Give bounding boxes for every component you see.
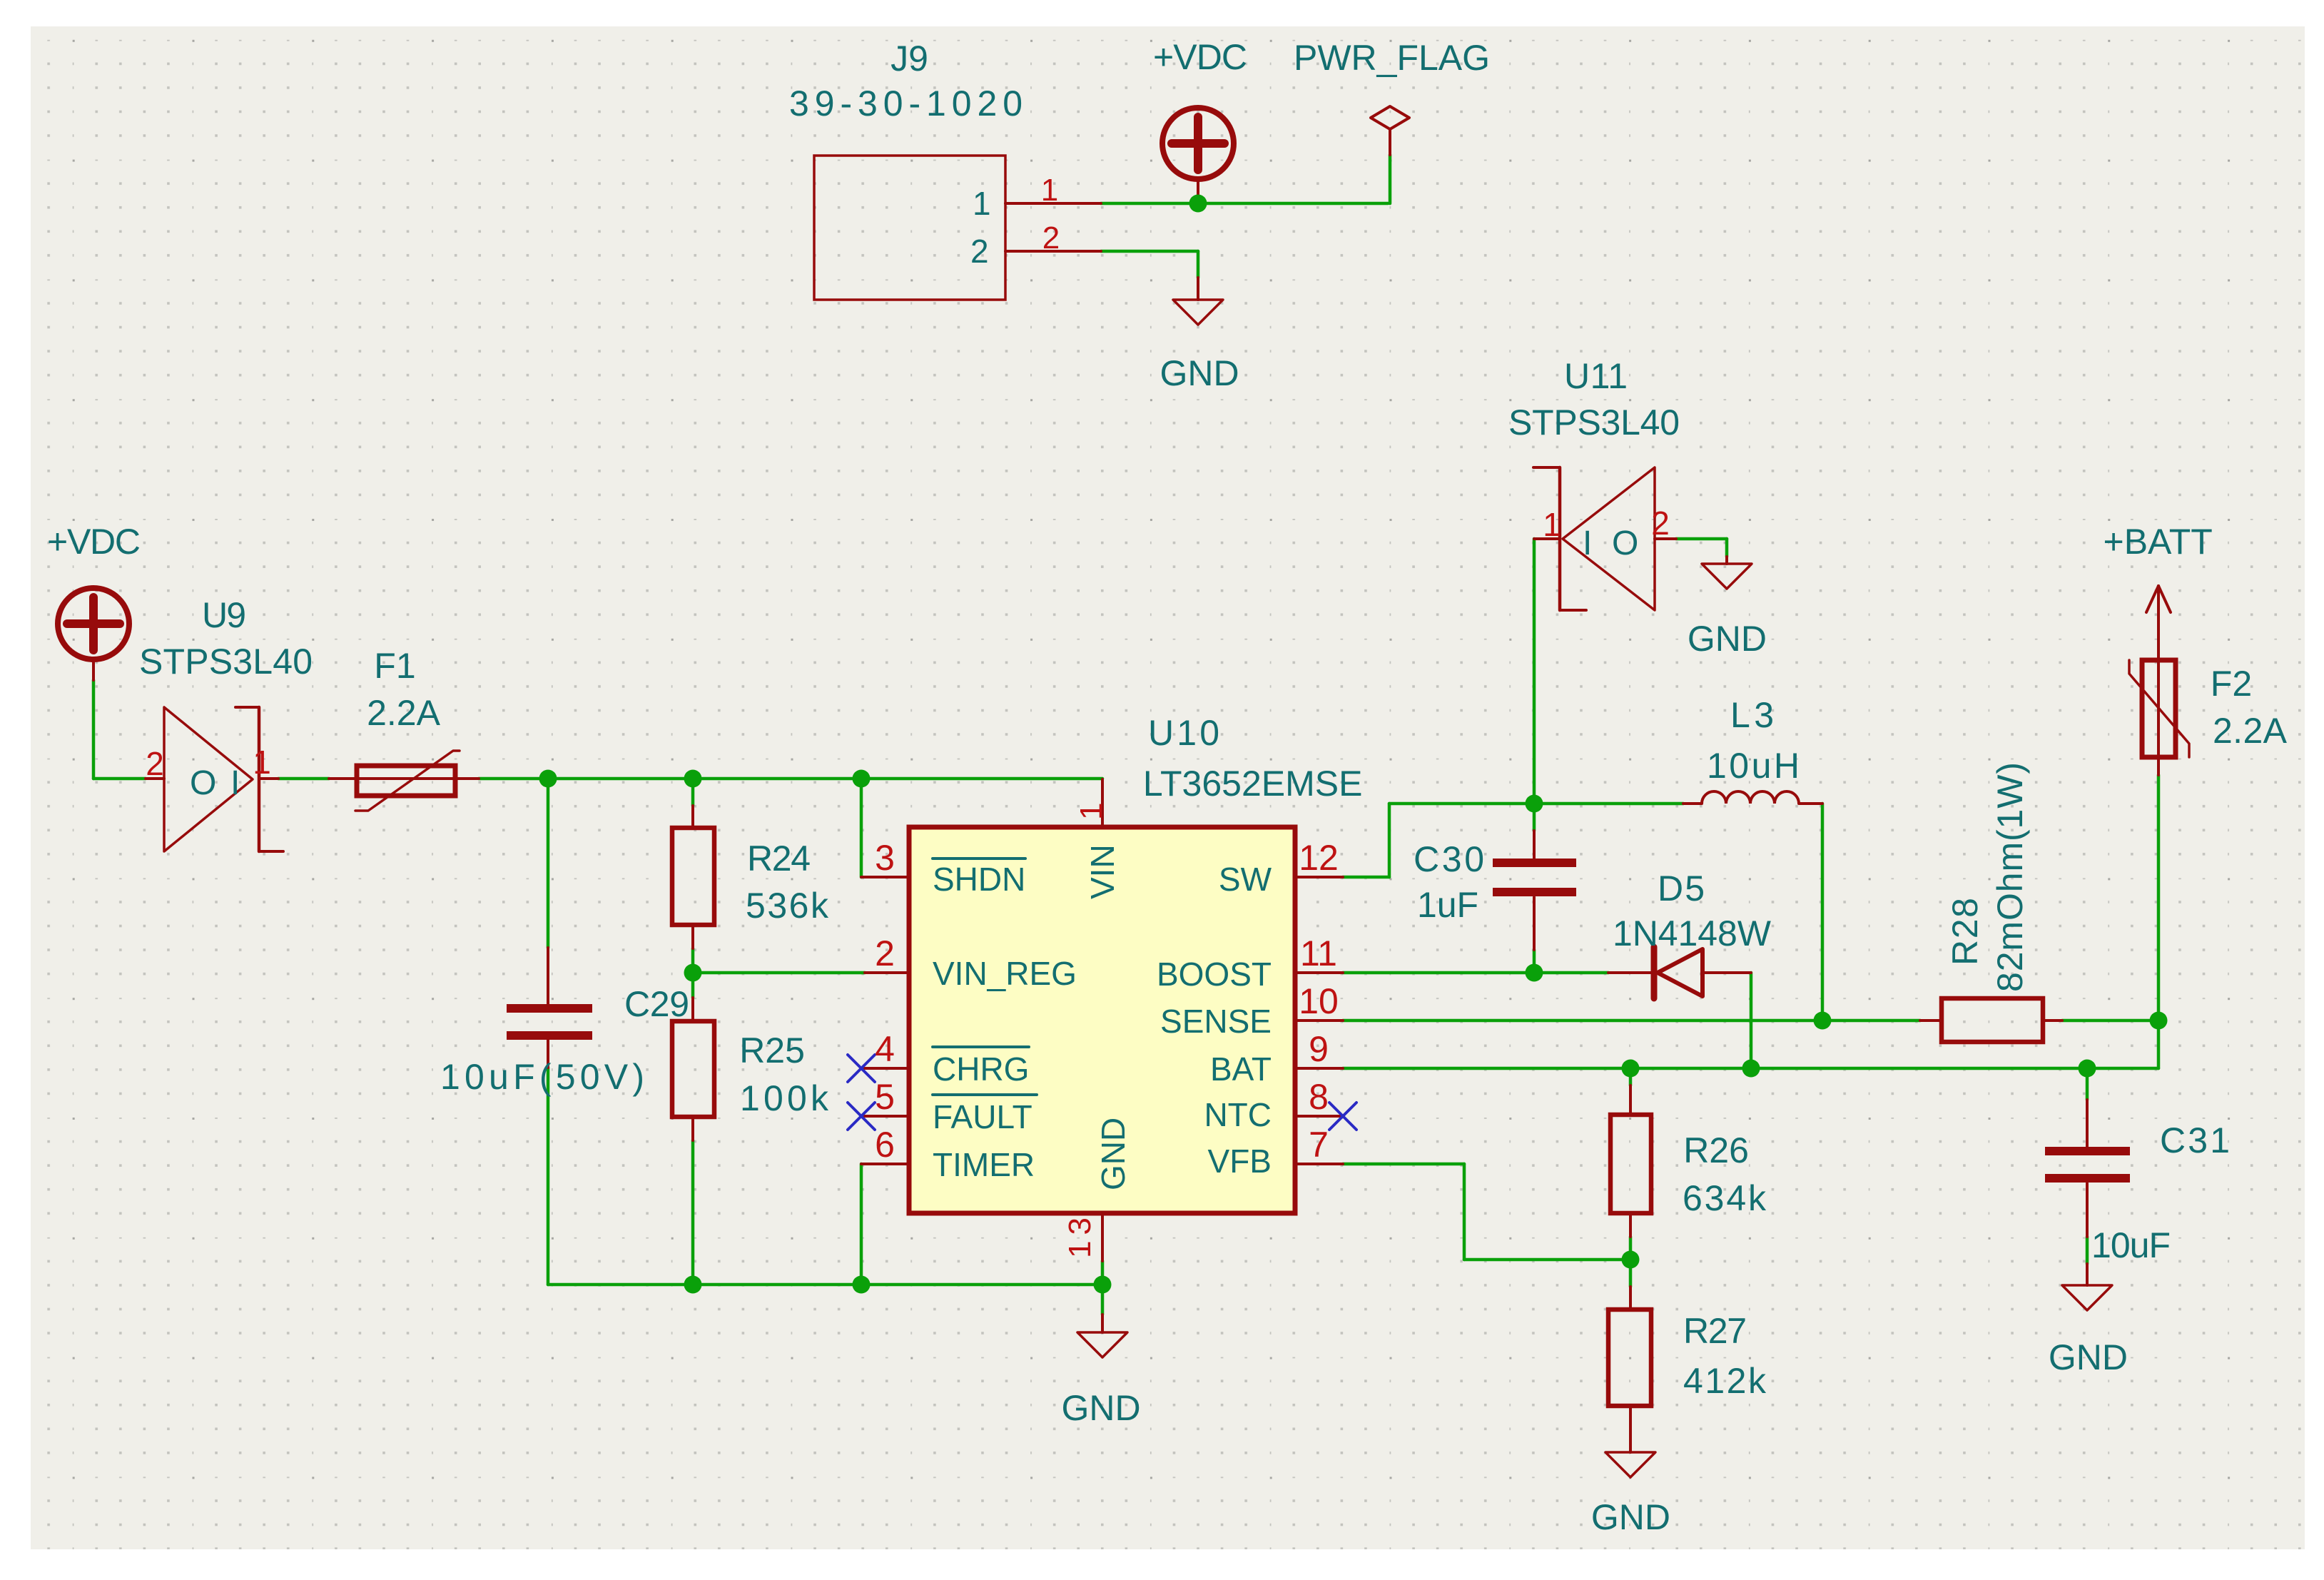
svg-text:GND: GND — [1591, 1497, 1670, 1537]
svg-text:PWR_FLAG: PWR_FLAG — [1294, 38, 1490, 78]
svg-text:O: O — [1612, 525, 1638, 562]
svg-text:R27: R27 — [1683, 1311, 1747, 1351]
svg-text:82mOhm(1W): 82mOhm(1W) — [1990, 762, 2030, 992]
svg-text:5: 5 — [875, 1077, 895, 1117]
svg-text:2: 2 — [146, 745, 164, 782]
svg-text:1uF: 1uF — [1417, 885, 1478, 925]
svg-text:GND: GND — [2049, 1337, 2128, 1377]
svg-text:CHRG: CHRG — [933, 1050, 1029, 1088]
svg-text:NTC: NTC — [1204, 1096, 1272, 1133]
svg-text:8: 8 — [1309, 1077, 1329, 1117]
svg-text:1: 1 — [1074, 803, 1109, 820]
svg-text:SW: SW — [1219, 861, 1272, 898]
svg-text:TIMER: TIMER — [933, 1146, 1035, 1183]
svg-text:1N4148W: 1N4148W — [1613, 913, 1772, 953]
svg-text:1: 1 — [253, 744, 271, 781]
svg-text:VFB: VFB — [1208, 1143, 1272, 1180]
svg-text:BAT: BAT — [1210, 1050, 1272, 1088]
svg-text:LT3652EMSE: LT3652EMSE — [1143, 764, 1363, 804]
svg-text:GND: GND — [1160, 353, 1239, 393]
svg-text:VIN: VIN — [1084, 844, 1121, 899]
svg-text:GND: GND — [1688, 619, 1767, 659]
svg-text:R25: R25 — [739, 1030, 805, 1070]
svg-text:2: 2 — [970, 233, 989, 270]
svg-text:R26: R26 — [1683, 1130, 1749, 1170]
svg-text:STPS3L40: STPS3L40 — [139, 642, 313, 682]
svg-text:10: 10 — [1299, 981, 1339, 1021]
svg-text:U10: U10 — [1148, 713, 1219, 753]
svg-text:GND: GND — [1062, 1388, 1141, 1428]
svg-text:+VDC: +VDC — [47, 522, 141, 562]
svg-text:J9: J9 — [890, 39, 928, 79]
svg-text:1: 1 — [973, 185, 991, 222]
svg-text:I: I — [1583, 525, 1592, 562]
svg-text:1: 1 — [1543, 506, 1561, 543]
svg-text:2.2A: 2.2A — [367, 693, 441, 733]
svg-text:1: 1 — [1041, 173, 1058, 208]
svg-text:7: 7 — [1309, 1125, 1329, 1165]
svg-text:6: 6 — [875, 1125, 895, 1165]
svg-text:F2: F2 — [2211, 664, 2252, 704]
svg-text:SENSE: SENSE — [1160, 1003, 1272, 1040]
svg-text:2: 2 — [1042, 221, 1060, 255]
svg-text:FAULT: FAULT — [933, 1098, 1032, 1135]
svg-text:F1: F1 — [374, 646, 415, 686]
svg-text:U11: U11 — [1564, 356, 1628, 396]
svg-text:O: O — [190, 764, 216, 802]
svg-text:C31: C31 — [2160, 1120, 2230, 1160]
svg-text:R24: R24 — [747, 839, 811, 878]
svg-text:2: 2 — [875, 933, 895, 973]
svg-text:10uF(50V): 10uF(50V) — [440, 1057, 644, 1097]
svg-text:+BATT: +BATT — [2104, 522, 2213, 562]
svg-text:BOOST: BOOST — [1157, 956, 1272, 993]
svg-text:GND: GND — [1095, 1118, 1132, 1190]
svg-text:2: 2 — [1651, 505, 1670, 542]
svg-text:VIN_REG: VIN_REG — [933, 955, 1077, 992]
svg-text:R28: R28 — [1945, 898, 1985, 966]
svg-text:U9: U9 — [202, 595, 246, 635]
svg-text:10uF: 10uF — [2091, 1225, 2171, 1265]
svg-text:C29: C29 — [624, 984, 689, 1024]
svg-text:10uH: 10uH — [1707, 746, 1800, 786]
svg-text:9: 9 — [1309, 1029, 1329, 1069]
svg-text:STPS3L40: STPS3L40 — [1508, 402, 1680, 442]
svg-text:11: 11 — [1300, 933, 1337, 973]
svg-text:+VDC: +VDC — [1153, 37, 1247, 77]
svg-text:3: 3 — [875, 838, 895, 878]
svg-text:SHDN: SHDN — [933, 861, 1025, 898]
svg-text:2.2A: 2.2A — [2213, 711, 2288, 751]
svg-text:D5: D5 — [1658, 869, 1705, 908]
svg-text:C30: C30 — [1414, 839, 1484, 879]
svg-text:12: 12 — [1299, 838, 1339, 878]
svg-text:4: 4 — [875, 1029, 895, 1069]
svg-text:I: I — [230, 764, 240, 802]
